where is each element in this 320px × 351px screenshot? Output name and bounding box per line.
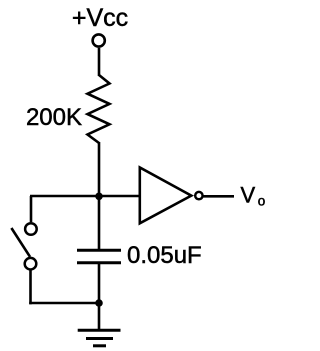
inverter U1 (140, 168, 192, 224)
wire node B to ground (98, 303, 101, 330)
wire switch top (30, 196, 33, 222)
wire resistor to node A (98, 142, 101, 197)
switch S1 arm (11, 228, 30, 257)
svg-text:+Vcc: +Vcc (72, 4, 128, 32)
svg-text:200K: 200K (26, 104, 82, 131)
node B junction dot (95, 299, 103, 307)
resistor R1 (88, 75, 110, 143)
capacitor C1 bottom plate (77, 261, 121, 264)
wire node A horizontal (30, 195, 140, 198)
svg-text:0.05uF: 0.05uF (127, 242, 202, 269)
ground (78, 330, 121, 346)
inverter U1 output bubble (195, 192, 202, 199)
capacitor C1 top plate (77, 249, 121, 252)
wire node A to capacitor (98, 196, 101, 249)
wire bottom horizontal (29, 302, 99, 305)
svg-text:V: V (241, 183, 256, 208)
svg-text:o: o (258, 194, 266, 209)
switch S1 bottom terminal (25, 258, 37, 270)
switch S1 top terminal (25, 223, 37, 235)
wire Vcc to resistor (98, 48, 101, 76)
node A junction dot (95, 193, 103, 201)
terminal +Vcc (93, 34, 105, 46)
wire switch bottom (29, 271, 32, 305)
wire capacitor to node B (98, 264, 101, 304)
wire bubble to Vo (204, 195, 235, 198)
